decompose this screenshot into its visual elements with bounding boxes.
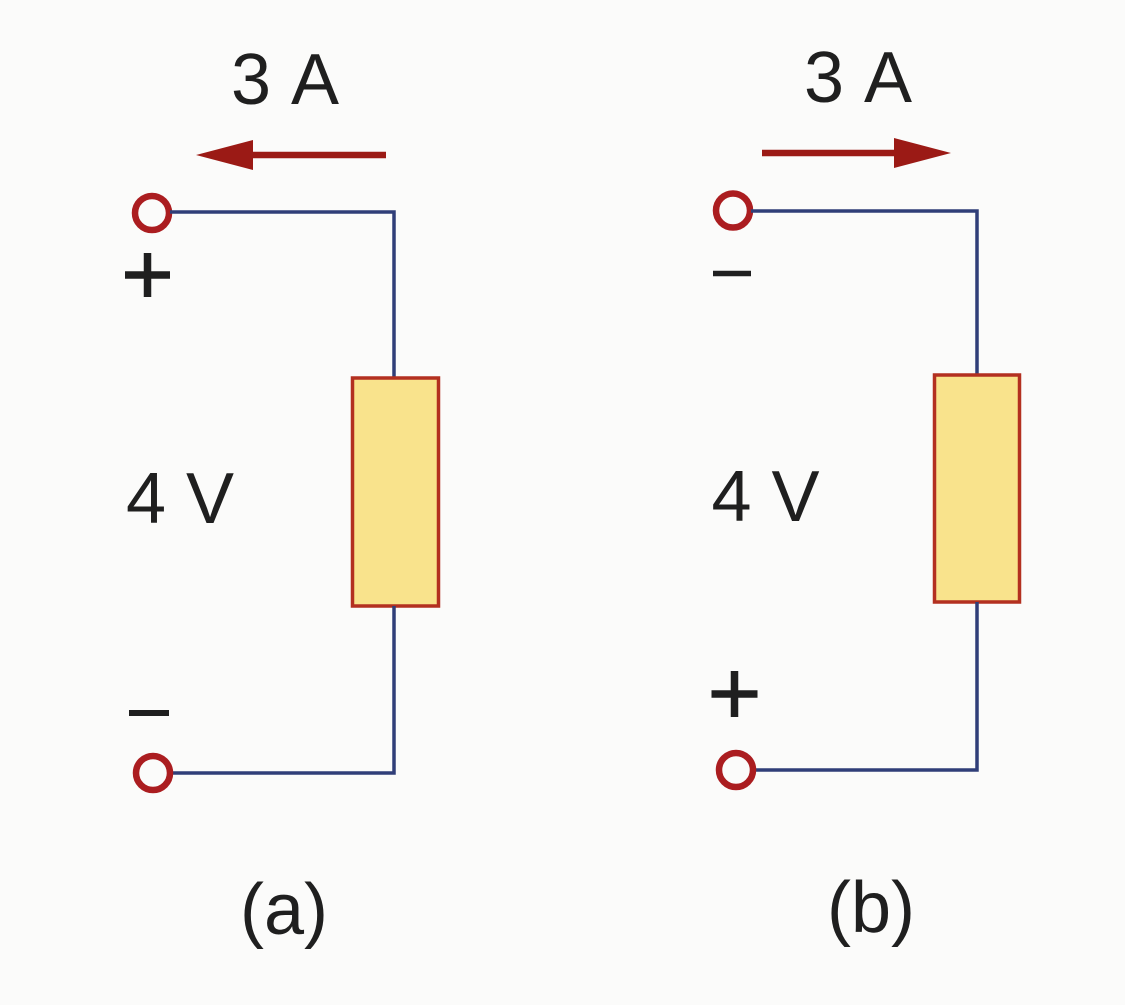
svg-text:4 V: 4 V xyxy=(711,457,819,537)
svg-text:(a): (a) xyxy=(240,870,328,950)
minus sign (a) xyxy=(129,710,169,716)
wire top (a) xyxy=(170,212,394,378)
element rectangle (a) xyxy=(353,378,439,606)
svg-text:3 A: 3 A xyxy=(804,38,914,118)
plus sign (b) xyxy=(712,671,758,717)
terminal bottom (a) xyxy=(136,756,170,790)
svg-text:(b): (b) xyxy=(827,868,915,948)
wire bottom (a) xyxy=(172,606,394,773)
terminal bottom (b) xyxy=(719,753,753,787)
element rectangle (b) xyxy=(935,375,1020,602)
svg-text:3 A: 3 A xyxy=(231,40,341,120)
terminal top (b) xyxy=(716,194,750,228)
plus sign (a) xyxy=(125,253,170,297)
svg-text:4 V: 4 V xyxy=(126,459,234,539)
wire bottom (b) xyxy=(755,602,977,770)
minus sign (b) xyxy=(713,271,751,277)
wire top (b) xyxy=(751,211,977,375)
terminal top (a) xyxy=(135,196,169,230)
current arrow (a) xyxy=(196,140,386,170)
current arrow (b) xyxy=(762,138,951,168)
